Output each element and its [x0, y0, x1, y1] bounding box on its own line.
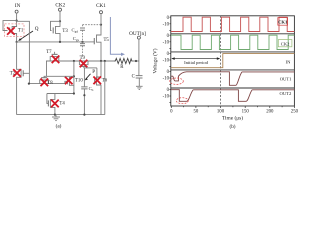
- transistor T1 (diode-connected): [3, 21, 17, 42]
- label CK2 box: [278, 40, 292, 47]
- ground main: [52, 115, 60, 121]
- y ticks: [169, 17, 170, 102]
- trace CK1: [171, 17, 294, 31]
- node P label + arrow: [85, 69, 96, 81]
- svg-text:CK2: CK2: [55, 3, 65, 9]
- wire T10 column: [73, 61, 75, 94]
- wire T8 rail: [29, 83, 65, 85]
- red X T10: [65, 77, 73, 85]
- red X T2: [13, 69, 21, 77]
- node T3 drain: [59, 20, 61, 22]
- label CK1 box: [278, 18, 288, 26]
- transistor T10 (vertical, gate left): [65, 77, 74, 85]
- terminal OUT[n]: [129, 31, 146, 39]
- wire P: [84, 67, 97, 69]
- node CK1/T5 drain: [100, 24, 102, 26]
- transistor T5: [90, 25, 101, 61]
- svg-text:200: 200: [266, 110, 274, 115]
- svg-text:T10: T10: [75, 79, 83, 84]
- wire OUT down: [138, 39, 140, 61]
- capacitor Cgd (parasitic, dashed): [80, 25, 85, 42]
- vertical dashed marker t=100: [220, 16, 222, 106]
- svg-text:-10: -10: [163, 77, 170, 82]
- y tick labels: [163, 16, 170, 100]
- wire T4 gate rail: [47, 93, 74, 95]
- svg-text:-10: -10: [163, 40, 170, 45]
- svg-text:T7: T7: [46, 50, 52, 55]
- node OUT rail left: [73, 60, 75, 62]
- svg-text:-10: -10: [163, 22, 170, 27]
- terminal IN: [15, 3, 21, 13]
- transistor T6 (vertical, gate left): [95, 61, 101, 115]
- transistor T7 (on OUT rail, gate up): [50, 52, 59, 61]
- terminal CK2: [55, 3, 65, 12]
- svg-text:T5: T5: [104, 38, 110, 43]
- transistor T4 (vertical, gate left): [47, 94, 55, 115]
- svg-text:-10: -10: [163, 59, 170, 64]
- svg-text:50: 50: [194, 110, 199, 115]
- svg-text:CK1: CK1: [278, 20, 288, 25]
- wire CK1 down: [100, 14, 102, 25]
- svg-text:Q: Q: [35, 26, 39, 32]
- node T8 rail: [28, 83, 30, 85]
- svg-text:CK1: CK1: [96, 3, 106, 9]
- svg-text:Initial period: Initial period: [184, 60, 209, 65]
- annotation ellipse OUT2: [176, 98, 188, 104]
- svg-text:CK2: CK2: [281, 41, 290, 46]
- node T10 drain: [73, 75, 75, 77]
- node OUT rail right column: [104, 60, 106, 62]
- wire P to T6 gate: [96, 68, 98, 79]
- node Q junction: [16, 41, 18, 43]
- red X T6: [93, 77, 101, 85]
- annotation initial period arrows: [171, 57, 220, 65]
- svg-text:OUT[n]: OUT[n]: [129, 31, 146, 37]
- red X T7: [52, 56, 60, 64]
- wire OUT rail: [46, 60, 139, 62]
- node Q cap tap: [81, 41, 83, 43]
- transistor T8 (on rail, gate up): [40, 78, 49, 84]
- svg-text:250: 250: [291, 110, 299, 115]
- wire dashed Cgd to CK1: [83, 24, 102, 26]
- trace IN: [171, 54, 294, 68]
- node bottom T6: [83, 114, 85, 116]
- svg-text:T3: T3: [62, 29, 68, 34]
- capacitor Cgs (parasitic, dashed): [80, 42, 85, 56]
- dashed red box around T1: [5, 24, 24, 37]
- transistor T9 (on OUT rail, gate down): [79, 61, 88, 68]
- node T1 drain: [16, 20, 18, 22]
- svg-text:-10: -10: [163, 95, 170, 100]
- trace OUT1: [171, 72, 294, 86]
- red X T9: [80, 60, 88, 68]
- blue arrow: [110, 17, 125, 56]
- wire T7 drop to T8 gate net: [46, 61, 48, 77]
- svg-text:(b): (b): [229, 123, 235, 130]
- node T4 rail right: [73, 92, 75, 94]
- svg-text:T4: T4: [59, 102, 65, 107]
- trace CK2: [171, 35, 294, 49]
- trace OUT2: [171, 90, 294, 102]
- red X T4: [51, 100, 59, 108]
- svg-text:T1: T1: [18, 29, 24, 34]
- resistor R: [114, 58, 132, 63]
- node Cb bottom: [83, 94, 85, 96]
- node bottom T4: [54, 114, 56, 116]
- svg-text:OUT1: OUT1: [280, 77, 292, 82]
- wire right column down: [104, 61, 106, 115]
- wire T8 gate net: [44, 76, 74, 77]
- svg-text:Voltage (V): Voltage (V): [152, 48, 159, 73]
- annotation ellipse OUT1: [170, 78, 184, 84]
- svg-text:100: 100: [217, 110, 225, 115]
- x tick labels: [170, 110, 298, 115]
- axis frame: [171, 16, 295, 106]
- svg-text:IN: IN: [286, 60, 292, 65]
- svg-text:Time (μs): Time (μs): [222, 115, 243, 122]
- panel dividers: [171, 34, 295, 88]
- svg-text:150: 150: [242, 110, 250, 115]
- svg-text:T6: T6: [102, 79, 108, 84]
- red X T1: [7, 27, 15, 35]
- terminal CK1: [96, 3, 106, 14]
- svg-text:IN: IN: [15, 3, 21, 9]
- node Q at T3: [59, 41, 61, 43]
- wire IN down: [16, 13, 18, 21]
- svg-text:P: P: [92, 69, 95, 75]
- node OUT: [135, 60, 137, 62]
- x ticks: [171, 106, 294, 108]
- node OUT rail T5 column: [100, 60, 102, 62]
- capacitor C: [136, 61, 143, 86]
- svg-text:OUT2: OUT2: [280, 91, 292, 96]
- wire riser from T1 drain to lower rail: [17, 21, 30, 83]
- wire Q rail: [16, 41, 90, 43]
- transistor T3 (diode-connected): [51, 21, 61, 42]
- svg-text:(a): (a): [56, 123, 62, 130]
- transistor T2: [17, 42, 30, 115]
- wire CK2 down: [59, 11, 61, 21]
- ground at C: [136, 86, 143, 89]
- red X T8: [41, 79, 49, 87]
- node Q label + arrow: [18, 26, 39, 41]
- capacitor Cb: [81, 68, 87, 115]
- svg-text:C: C: [132, 75, 135, 80]
- wire bottom rail: [17, 114, 105, 116]
